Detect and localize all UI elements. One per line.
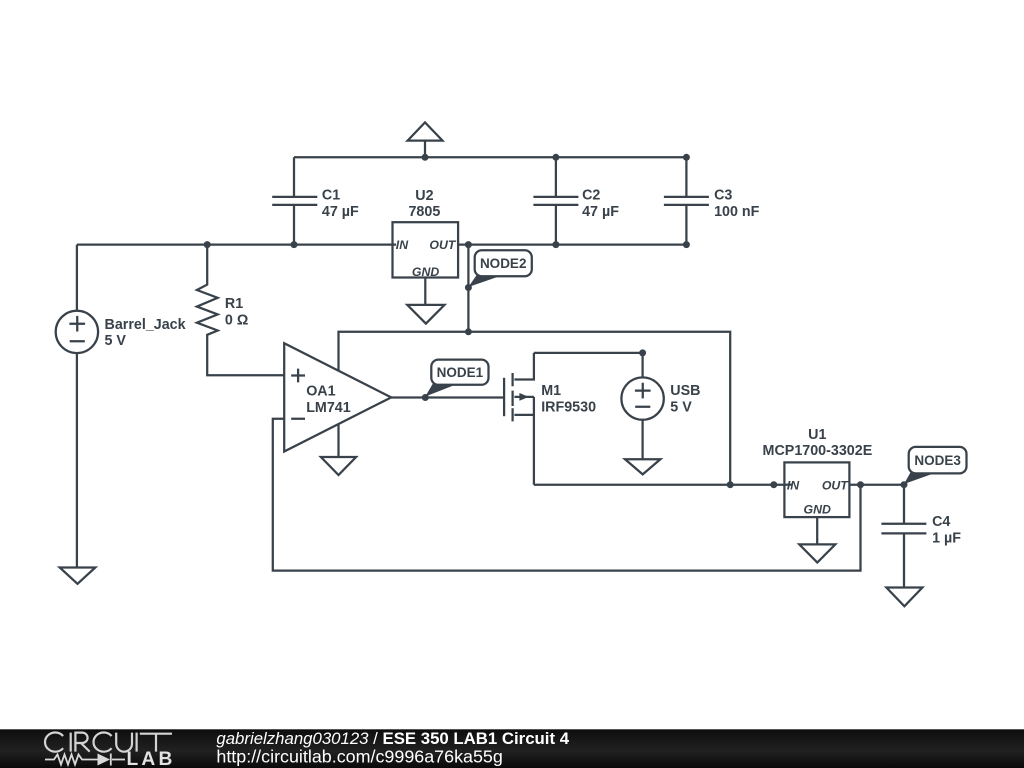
svg-text:IRF9530: IRF9530 [541, 399, 596, 415]
svg-text:R1: R1 [225, 296, 243, 312]
svg-text:NODE2: NODE2 [480, 256, 527, 271]
svg-text:NODE3: NODE3 [914, 453, 961, 468]
svg-text:47 µF: 47 µF [322, 204, 359, 220]
svg-text:gabrielzhang030123 / ESE 350 L: gabrielzhang030123 / ESE 350 LAB1 Circui… [216, 729, 569, 748]
svg-text:http://circuitlab.com/c9996a76: http://circuitlab.com/c9996a76ka55g [216, 746, 502, 766]
svg-text:GND: GND [412, 265, 439, 279]
svg-text:LAB: LAB [127, 749, 176, 768]
svg-text:C1: C1 [322, 187, 340, 203]
svg-text:LM741: LM741 [306, 400, 351, 416]
svg-text:OUT: OUT [429, 238, 456, 252]
svg-text:GND: GND [804, 503, 831, 517]
svg-text:7805: 7805 [408, 204, 440, 220]
svg-text:C3: C3 [714, 187, 732, 203]
svg-text:C2: C2 [582, 187, 600, 203]
svg-text:100 nF: 100 nF [714, 204, 760, 220]
svg-text:M1: M1 [541, 383, 561, 399]
svg-text:C4: C4 [932, 514, 950, 530]
svg-text:47 µF: 47 µF [582, 204, 619, 220]
svg-text:U1: U1 [808, 427, 826, 443]
svg-text:U2: U2 [415, 188, 433, 204]
svg-text:5 V: 5 V [105, 333, 127, 349]
svg-text:OA1: OA1 [306, 383, 335, 399]
svg-text:5 V: 5 V [670, 399, 692, 415]
svg-text:OUT: OUT [822, 478, 849, 492]
svg-text:1 µF: 1 µF [932, 531, 961, 547]
svg-text:IN: IN [396, 238, 409, 252]
svg-text:IN: IN [787, 478, 800, 492]
svg-text:MCP1700-3302E: MCP1700-3302E [763, 443, 873, 459]
svg-text:NODE1: NODE1 [437, 365, 484, 380]
svg-text:0 Ω: 0 Ω [225, 312, 248, 328]
svg-text:USB: USB [670, 383, 700, 399]
svg-text:Barrel_Jack: Barrel_Jack [105, 317, 186, 333]
